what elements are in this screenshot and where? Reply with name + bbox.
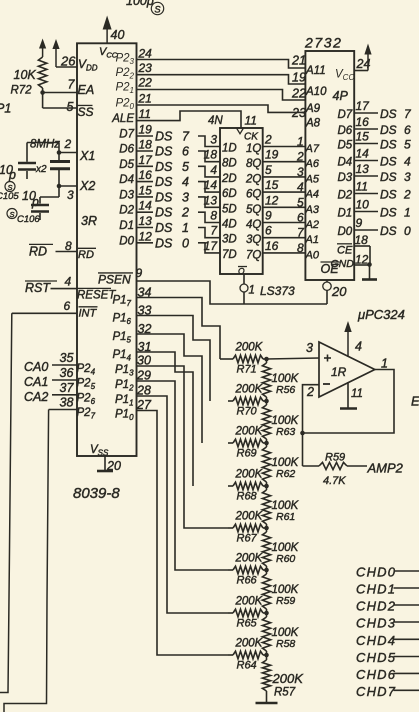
svg-text:38: 38: [60, 396, 74, 410]
svg-text:R67: R67: [237, 533, 258, 545]
svg-text:2732: 2732: [304, 35, 343, 51]
svg-text:19: 19: [265, 148, 279, 162]
svg-text:19: 19: [139, 123, 153, 137]
svg-text:4Q: 4Q: [246, 219, 261, 231]
svg-text:3R: 3R: [81, 214, 97, 228]
svg-text:D6: D6: [119, 144, 134, 156]
svg-text:4D: 4D: [222, 219, 237, 231]
svg-text:16: 16: [265, 239, 279, 253]
svg-text:9: 9: [265, 209, 272, 223]
svg-text:2Q: 2Q: [245, 173, 261, 185]
svg-text:200K: 200K: [235, 638, 264, 650]
svg-text:1: 1: [381, 357, 388, 371]
svg-text:6D: 6D: [222, 188, 237, 200]
svg-text:P1: P1: [0, 102, 11, 116]
svg-text:5Q: 5Q: [246, 204, 261, 216]
svg-text:36: 36: [60, 366, 74, 380]
svg-text:R70: R70: [237, 406, 258, 418]
svg-text:9: 9: [356, 216, 363, 230]
svg-text:A6: A6: [305, 158, 320, 170]
svg-text:S: S: [154, 5, 161, 15]
svg-text:15: 15: [356, 130, 370, 144]
svg-text:D4: D4: [119, 174, 134, 186]
svg-text:D6: D6: [338, 125, 353, 137]
svg-text:14: 14: [204, 178, 218, 192]
svg-text:4: 4: [355, 340, 362, 354]
svg-text:DS: DS: [380, 138, 397, 152]
svg-text:A7: A7: [305, 143, 320, 155]
svg-text:p: p: [31, 195, 39, 209]
svg-text:D1: D1: [119, 220, 134, 232]
svg-text:7: 7: [68, 78, 76, 92]
svg-text:X2: X2: [79, 179, 95, 193]
svg-text:2: 2: [306, 385, 314, 399]
svg-text:8D: 8D: [222, 158, 237, 170]
svg-text:0: 0: [182, 236, 189, 250]
svg-text:12: 12: [355, 253, 369, 267]
svg-text:R60: R60: [276, 553, 295, 565]
svg-text:CHD4: CHD4: [356, 633, 396, 648]
svg-text:6: 6: [64, 299, 71, 313]
svg-text:C105: C105: [0, 191, 19, 202]
svg-text:22: 22: [291, 87, 306, 101]
svg-text:26: 26: [60, 54, 76, 69]
svg-text:8: 8: [65, 239, 72, 253]
svg-text:24: 24: [356, 57, 371, 71]
svg-text:1Q: 1Q: [246, 143, 261, 155]
svg-text:4: 4: [210, 163, 217, 177]
svg-text:CHD6: CHD6: [356, 667, 396, 682]
svg-text:6Q: 6Q: [246, 189, 261, 201]
svg-text:18: 18: [355, 233, 369, 247]
svg-text:R62: R62: [276, 468, 295, 480]
svg-text:2D: 2D: [221, 173, 237, 185]
svg-text:17: 17: [204, 239, 219, 253]
svg-text:DS: DS: [380, 155, 397, 169]
svg-text:7Q: 7Q: [246, 249, 261, 261]
svg-text:4P: 4P: [333, 89, 349, 103]
svg-text:SS: SS: [78, 105, 94, 119]
svg-text:AMP2: AMP2: [367, 461, 404, 476]
svg-text:ALE: ALE: [111, 113, 134, 125]
svg-text:A8: A8: [305, 118, 321, 130]
svg-text:2: 2: [64, 137, 72, 151]
svg-text:6: 6: [404, 123, 411, 137]
svg-text:12: 12: [265, 193, 279, 207]
svg-text:R64: R64: [237, 660, 257, 672]
svg-text:13: 13: [139, 214, 153, 228]
svg-text:19: 19: [292, 71, 306, 85]
svg-text:A5: A5: [305, 173, 320, 185]
svg-text:R65: R65: [237, 618, 258, 630]
svg-text:13: 13: [356, 162, 370, 176]
svg-text:15: 15: [139, 183, 153, 197]
svg-text:A0: A0: [305, 249, 320, 261]
svg-text:R57: R57: [274, 687, 296, 699]
svg-text:4: 4: [404, 155, 411, 169]
svg-text:CK: CK: [244, 132, 259, 143]
svg-text:16: 16: [356, 115, 370, 129]
svg-text:RST: RST: [25, 281, 51, 295]
svg-text:1D: 1D: [222, 143, 237, 155]
svg-text:1R: 1R: [331, 365, 347, 379]
svg-text:DS: DS: [380, 224, 397, 238]
svg-text:21: 21: [291, 54, 306, 68]
svg-text:35: 35: [60, 351, 74, 365]
svg-text:A11: A11: [305, 65, 326, 77]
svg-text:μPC324: μPC324: [357, 307, 405, 322]
svg-text:2: 2: [296, 150, 304, 164]
svg-text:DS: DS: [380, 107, 397, 121]
svg-text:R69: R69: [237, 448, 257, 460]
svg-text:A3: A3: [305, 204, 320, 216]
svg-text:9: 9: [136, 266, 143, 280]
svg-text:1: 1: [297, 135, 304, 149]
svg-text:4.7K: 4.7K: [323, 475, 346, 487]
svg-text:18: 18: [139, 138, 153, 152]
svg-text:11: 11: [139, 107, 151, 121]
svg-text:CA1: CA1: [24, 375, 48, 389]
svg-text:4: 4: [65, 275, 72, 289]
svg-text:5: 5: [67, 100, 74, 114]
svg-text:CHD0: CHD0: [356, 565, 396, 580]
svg-text:CA2: CA2: [24, 390, 48, 404]
svg-text:15: 15: [265, 178, 279, 192]
svg-text:CHD2: CHD2: [356, 599, 396, 614]
svg-text:2: 2: [403, 188, 411, 202]
svg-text:14: 14: [356, 147, 370, 161]
svg-text:3: 3: [404, 170, 411, 184]
svg-text:DS: DS: [380, 170, 397, 184]
svg-text:D7: D7: [338, 109, 353, 121]
svg-text:3: 3: [210, 133, 217, 147]
svg-text:x2: x2: [35, 164, 47, 175]
svg-text:2: 2: [264, 133, 272, 147]
svg-text:21: 21: [138, 92, 152, 106]
svg-text:18: 18: [204, 148, 218, 162]
svg-text:17: 17: [356, 99, 371, 113]
svg-text:A1: A1: [305, 234, 319, 246]
svg-text:DS: DS: [380, 206, 397, 220]
svg-text:4: 4: [297, 180, 304, 194]
svg-text:3: 3: [67, 188, 74, 202]
svg-text:17: 17: [139, 153, 154, 167]
svg-text:7D: 7D: [222, 249, 237, 261]
svg-text:R61: R61: [276, 511, 295, 523]
svg-text:8: 8: [210, 209, 217, 223]
svg-text:INT: INT: [79, 308, 98, 320]
svg-text:DS: DS: [380, 188, 397, 202]
svg-text:13: 13: [204, 193, 218, 207]
svg-text:200K: 200K: [235, 553, 264, 565]
svg-text:D0: D0: [338, 226, 353, 238]
svg-text:D5: D5: [338, 140, 353, 152]
svg-text:R72: R72: [11, 85, 33, 97]
svg-text:5: 5: [265, 163, 272, 177]
svg-text:10K: 10K: [14, 68, 37, 82]
svg-text:R63: R63: [276, 426, 295, 438]
svg-text:CE: CE: [337, 245, 353, 257]
svg-text:PSEN: PSEN: [98, 273, 131, 287]
svg-text:S: S: [9, 210, 14, 219]
svg-text:3: 3: [306, 341, 313, 355]
svg-text:D3: D3: [119, 189, 134, 201]
svg-text:D3: D3: [338, 172, 353, 184]
svg-text:8Q: 8Q: [246, 158, 261, 170]
svg-text:5D: 5D: [222, 203, 237, 215]
svg-text:1: 1: [404, 206, 411, 220]
svg-text:24: 24: [138, 47, 153, 61]
svg-text:8039-8: 8039-8: [73, 485, 120, 502]
svg-text:R59: R59: [276, 595, 295, 607]
svg-text:22: 22: [138, 76, 153, 90]
svg-text:8: 8: [297, 241, 304, 255]
svg-text:16: 16: [139, 168, 153, 182]
svg-text:CHD7: CHD7: [356, 684, 396, 699]
svg-text:200K: 200K: [235, 342, 264, 354]
svg-text:DS: DS: [380, 123, 397, 137]
svg-text:3: 3: [297, 165, 304, 179]
svg-text:37: 37: [60, 381, 75, 395]
svg-text:CA0: CA0: [24, 360, 48, 374]
svg-text:40: 40: [111, 28, 125, 42]
svg-text:23: 23: [291, 106, 306, 120]
svg-text:6: 6: [297, 211, 304, 225]
svg-text:A2: A2: [305, 219, 319, 231]
svg-text:D4: D4: [338, 157, 353, 169]
svg-text:CHD1: CHD1: [356, 582, 396, 597]
svg-text:D2: D2: [119, 205, 134, 217]
svg-text:LS373: LS373: [260, 284, 295, 298]
svg-text:R59: R59: [325, 452, 345, 464]
svg-text:200K: 200K: [235, 384, 264, 396]
svg-text:DS: DS: [155, 236, 173, 250]
svg-text:11: 11: [356, 180, 368, 194]
svg-text:R71: R71: [237, 364, 257, 376]
svg-text:5: 5: [297, 195, 304, 209]
svg-text:R66: R66: [237, 575, 258, 587]
svg-text:4N: 4N: [208, 115, 223, 127]
svg-text:A9: A9: [305, 103, 321, 115]
svg-text:A4: A4: [305, 189, 319, 201]
svg-text:12: 12: [139, 229, 153, 243]
svg-text:23: 23: [138, 61, 153, 75]
svg-text:11: 11: [351, 388, 363, 400]
svg-text:RESET: RESET: [77, 290, 116, 302]
svg-text:11: 11: [245, 114, 257, 128]
svg-text:200K: 200K: [235, 511, 264, 523]
svg-text:0: 0: [404, 224, 411, 238]
svg-text:R68: R68: [237, 491, 258, 503]
svg-text:3Q: 3Q: [246, 234, 261, 246]
svg-text:5: 5: [404, 138, 411, 152]
svg-text:100p: 100p: [126, 0, 154, 8]
svg-text:OE: OE: [321, 262, 340, 276]
svg-text:R58: R58: [276, 638, 295, 650]
svg-text:14: 14: [139, 199, 153, 213]
svg-text:200K: 200K: [235, 596, 264, 608]
svg-text:20: 20: [331, 284, 347, 299]
svg-text:200K: 200K: [235, 426, 264, 438]
svg-text:8MHz: 8MHz: [30, 139, 60, 151]
svg-text:10: 10: [356, 198, 370, 212]
svg-text:D7: D7: [119, 129, 134, 141]
svg-text:E: E: [411, 394, 419, 409]
svg-text:CHD5: CHD5: [356, 650, 396, 665]
svg-text:C106: C106: [17, 214, 40, 225]
svg-text:1: 1: [249, 285, 255, 297]
svg-text:D2: D2: [338, 190, 353, 202]
svg-text:6: 6: [265, 224, 272, 238]
svg-text:X1: X1: [79, 149, 95, 163]
svg-text:200K: 200K: [272, 671, 305, 686]
svg-text:D1: D1: [338, 208, 353, 220]
svg-text:200K: 200K: [235, 469, 264, 481]
svg-text:R56: R56: [276, 384, 295, 396]
svg-text:RD: RD: [29, 244, 47, 258]
svg-text:A10: A10: [305, 86, 327, 98]
svg-text:EA: EA: [78, 83, 95, 97]
svg-text:CHD3: CHD3: [356, 616, 396, 631]
svg-text:p: p: [8, 168, 16, 182]
svg-text:RD: RD: [78, 249, 94, 261]
svg-text:D5: D5: [119, 159, 134, 171]
svg-text:D0: D0: [119, 235, 134, 247]
svg-text:3D: 3D: [222, 234, 237, 246]
